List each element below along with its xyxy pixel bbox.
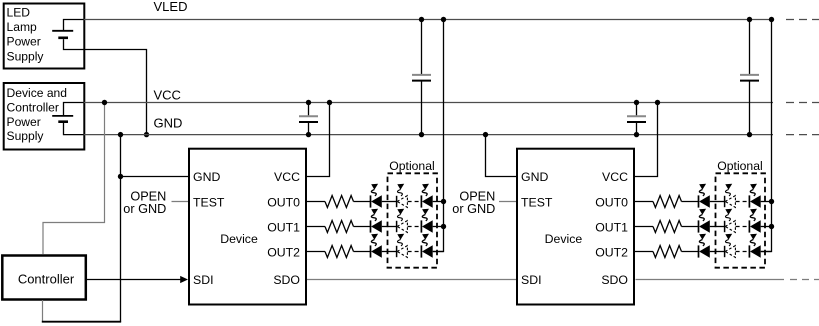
wire OUT2 stub bbox=[635, 251, 653, 253]
svg-text:VCC: VCC bbox=[602, 170, 628, 184]
svg-text:OUT0: OUT0 bbox=[595, 196, 628, 210]
svg-text:or GND: or GND bbox=[123, 202, 166, 216]
svg-text:Optional: Optional bbox=[389, 159, 434, 173]
LED D3 bbox=[371, 234, 382, 258]
wire D4 to D4b bbox=[710, 201, 724, 203]
controller box bbox=[2, 256, 86, 300]
wire D3 to D3b bbox=[382, 251, 396, 253]
wire TEST stub device 2 bbox=[499, 201, 517, 203]
dashed optional box bbox=[716, 173, 766, 267]
wire D6 to D6b bbox=[710, 251, 724, 253]
svg-text:or GND: or GND bbox=[452, 202, 495, 216]
capacitor C1 (VCC bypass) bbox=[308, 103, 310, 116]
wire R5 to LED bbox=[682, 226, 699, 228]
LED lamp power supply box bbox=[4, 4, 85, 69]
wire R2 to LED bbox=[354, 226, 371, 228]
wire OUT1 stub bbox=[307, 226, 325, 228]
wire R1 to LED bbox=[354, 201, 371, 203]
svg-text:VLED: VLED bbox=[154, 0, 188, 14]
svg-text:Device: Device bbox=[545, 232, 583, 246]
svg-text:OUT2: OUT2 bbox=[595, 246, 628, 260]
capacitor C2 (VLED bulk) bbox=[421, 20, 423, 75]
wire battery B2 + to VCC bbox=[64, 103, 86, 116]
battery B2 (device/controller supply) bbox=[52, 115, 73, 117]
resistor R3 bbox=[325, 246, 354, 258]
wire GND to device 1 GND pin bbox=[121, 176, 189, 178]
svg-text:Lamp: Lamp bbox=[7, 20, 38, 34]
wire D1 to D1b bbox=[382, 201, 396, 203]
LED D1 bbox=[371, 184, 382, 208]
svg-text:Supply: Supply bbox=[7, 129, 45, 143]
LED D1b optional bbox=[397, 184, 408, 208]
wire D2b to D2c dashed bbox=[408, 226, 421, 228]
wire OUT0 stub bbox=[307, 201, 325, 203]
wire LED anode rail to VLED bbox=[761, 20, 772, 252]
junction VCC tap bbox=[102, 100, 107, 105]
device U2 box bbox=[517, 149, 634, 305]
svg-text:Power: Power bbox=[7, 115, 41, 129]
svg-text:GND: GND bbox=[193, 170, 220, 184]
wire D4c to anode rail bbox=[761, 201, 772, 203]
svg-text:OUT0: OUT0 bbox=[267, 196, 300, 210]
junction VCC riser bbox=[655, 100, 660, 105]
svg-text:Controller: Controller bbox=[7, 100, 59, 114]
wire bottom GND return bbox=[42, 321, 121, 323]
svg-text:VCC: VCC bbox=[274, 170, 300, 184]
device and controller power supply box bbox=[4, 83, 85, 150]
wire battery B2 - to GND bbox=[64, 123, 86, 135]
wire OUT1 stub bbox=[635, 226, 653, 228]
svg-text:Power: Power bbox=[7, 35, 41, 49]
wire controller SDI with arrow bbox=[87, 279, 181, 281]
capacitor C4 (VLED bulk) bbox=[749, 20, 751, 75]
LED D5b optional bbox=[725, 209, 736, 233]
device U1 box bbox=[189, 149, 306, 305]
wire battery B1 + to VLED bbox=[64, 20, 86, 31]
resistor R1 bbox=[325, 196, 354, 208]
svg-text:TEST: TEST bbox=[193, 196, 225, 210]
wire OUT2 stub bbox=[307, 251, 325, 253]
svg-text:OUT1: OUT1 bbox=[595, 221, 628, 235]
wire battery B1 - to GND rail bbox=[64, 39, 147, 135]
svg-text:Controller: Controller bbox=[18, 272, 75, 287]
resistor R6 bbox=[653, 246, 682, 258]
wire D3c to anode rail bbox=[433, 251, 444, 253]
wire D5c to anode rail bbox=[761, 226, 772, 228]
svg-text:SDI: SDI bbox=[193, 273, 214, 287]
LED D4b optional bbox=[725, 184, 736, 208]
battery B1 (LED lamp supply) bbox=[52, 30, 73, 32]
svg-text:Device: Device bbox=[220, 232, 258, 246]
junction GND rail tap bbox=[118, 132, 123, 137]
LED D4c bbox=[749, 184, 760, 208]
resistor R2 bbox=[325, 221, 354, 233]
svg-text:Device and: Device and bbox=[7, 86, 68, 100]
svg-text:TEST: TEST bbox=[521, 196, 553, 210]
wire R6 to LED bbox=[682, 251, 699, 253]
LED D4 bbox=[699, 184, 710, 208]
LED D6c bbox=[749, 234, 760, 258]
wire D2 to D2b bbox=[382, 226, 396, 228]
svg-text:OUT1: OUT1 bbox=[267, 221, 300, 235]
wire D3b to D3c dashed bbox=[408, 251, 421, 253]
wire D6c to anode rail bbox=[761, 251, 772, 253]
LED D6 bbox=[699, 234, 710, 258]
wire OUT0 stub bbox=[635, 201, 653, 203]
LED D5 bbox=[699, 209, 710, 233]
wire device 2 GND pin to GND rail bbox=[486, 135, 518, 177]
wire D6b to D6c dashed bbox=[736, 251, 749, 253]
wire D4b to D4c dashed bbox=[736, 201, 749, 203]
junction on GND rail bbox=[144, 132, 149, 137]
svg-text:LED: LED bbox=[7, 6, 31, 20]
svg-text:SDO: SDO bbox=[601, 273, 628, 287]
svg-text:OUT2: OUT2 bbox=[267, 246, 300, 260]
wire D5 to D5b bbox=[710, 226, 724, 228]
LED D2 bbox=[371, 209, 382, 233]
junction VCC riser bbox=[327, 100, 332, 105]
GND rail bbox=[84, 134, 773, 136]
resistor R4 bbox=[653, 196, 682, 208]
wire R4 to LED bbox=[682, 201, 699, 203]
LED D2b optional bbox=[397, 209, 408, 233]
LED D5c bbox=[749, 209, 760, 233]
wire LED anode rail to VLED bbox=[433, 20, 444, 252]
svg-text:GND: GND bbox=[154, 115, 183, 130]
svg-text:Optional: Optional bbox=[717, 159, 762, 173]
VCC rail bbox=[84, 102, 773, 104]
svg-text:VCC: VCC bbox=[154, 87, 181, 102]
wire VCC pin riser bbox=[635, 103, 658, 177]
wire TEST stub device 1 bbox=[172, 201, 189, 203]
LED D2c bbox=[421, 209, 432, 233]
wire D1b to D1c dashed bbox=[408, 201, 421, 203]
svg-text:Supply: Supply bbox=[7, 49, 45, 63]
wire D5b to D5c dashed bbox=[736, 226, 749, 228]
LED D6b optional bbox=[725, 234, 736, 258]
wire controller to GND return bbox=[42, 300, 44, 322]
LED D1c bbox=[421, 184, 432, 208]
junction device 2 GND bbox=[483, 132, 488, 137]
wire SDO2 continuation bbox=[636, 279, 785, 281]
wire VCC to controller bbox=[43, 103, 105, 255]
wire SDO1 to SDI2 bbox=[307, 279, 517, 281]
LED D3c bbox=[421, 234, 432, 258]
junction GND branch bbox=[118, 174, 123, 179]
wire D2c to anode rail bbox=[433, 226, 444, 228]
resistor R5 bbox=[653, 221, 682, 233]
capacitor C3 (VCC bypass) bbox=[636, 103, 638, 116]
svg-text:SDO: SDO bbox=[273, 273, 300, 287]
wire VCC pin riser bbox=[307, 103, 330, 177]
LED D3b optional bbox=[397, 234, 408, 258]
wire R3 to LED bbox=[354, 251, 371, 253]
svg-text:GND: GND bbox=[521, 170, 548, 184]
VLED rail bbox=[84, 19, 773, 21]
dashed optional box bbox=[388, 173, 438, 267]
wire D1c to anode rail bbox=[433, 201, 444, 203]
svg-text:SDI: SDI bbox=[521, 273, 542, 287]
